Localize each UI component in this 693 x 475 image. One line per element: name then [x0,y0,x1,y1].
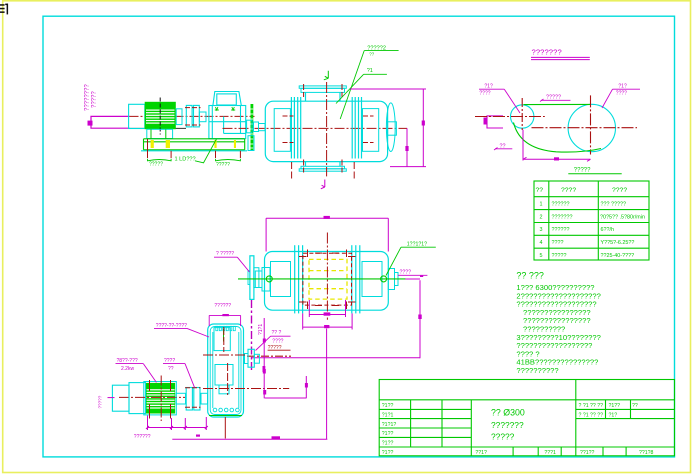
gearbox vent marks (green) [215,107,219,110]
lower mill vertical centerline (dark red) [326,233,328,320]
svg-text:2.2kw: 2.2kw [121,366,134,372]
bearing pedestal (cyan) [247,120,252,133]
svg-text:?????: ????? [216,162,230,168]
left journal shaft blocks [255,271,262,288]
corner label glyph (black) [0,4,8,15]
svg-text:?? ?: ?? ? [272,330,282,336]
svg-text:??: ?? [369,52,375,57]
svg-text:??: ?? [168,366,174,372]
gearbox input pulley (cyan) [245,354,249,364]
pinion gear strip (green hatched) [251,104,254,151]
lower gearbox (cyan) [208,324,244,417]
right head inner [363,109,379,152]
section mark top (green) [324,71,329,80]
svg-text:1: 1 [540,202,543,208]
svg-text:??????: ?????? [134,434,151,440]
svg-text:?1??: ?1?? [382,440,394,446]
svg-text:????: ???? [612,187,627,194]
svg-text:3: 3 [540,227,543,233]
right journal [388,122,397,135]
right head cone [362,262,382,297]
belt bottom run (green arc) [514,123,602,153]
gearbox center extension (dark red vertical) [224,417,226,439]
black shaft base line [130,127,187,129]
mill pulley disc (cyan) [250,256,254,300]
motor M1 (green striped) [145,98,176,135]
small pulley (cyan circle) [511,105,534,128]
svg-text:???????: ??????? [532,48,562,57]
lower motor M2 (green striped) [144,382,177,415]
svg-text:?? ???: ?? ??? [516,271,544,281]
left head cone [271,262,291,297]
dimension ticks (magenta) [405,121,425,152]
outer gauge dimension box top (magenta) [266,218,388,251]
lower coupling (cyan) [176,393,186,404]
top manhole neck [306,92,341,101]
gearbox foot line (green) [209,415,242,417]
svg-text:1??1?1?: 1??1?1? [407,241,427,247]
left extension (magenta) [108,397,115,399]
svg-text:6??/h: 6??/h [601,227,615,233]
svg-text:??: ?? [536,187,544,194]
large pulley centerlines (dark red) [532,127,638,129]
svg-text:?1??: ?1?? [609,403,621,409]
svg-text:????: ???? [400,269,412,275]
svg-text:???1: ???1 [544,450,556,456]
right head flange pair [351,97,353,159]
base frame sole plate (cyan) [141,150,247,152]
grate plates (yellow dashed) [309,259,347,299]
svg-text:?1??: ?1?? [382,403,394,409]
svg-text:????: ???? [272,339,283,345]
svg-text:?1?: ?1? [484,83,493,89]
motor centerlines (dark red) [160,376,162,422]
right flange plates [351,245,353,313]
mill vertical centerline (dark red) [326,82,328,176]
anchor bolts (yellow) [151,140,236,148]
svg-text:?????: ????? [149,162,163,168]
output shaft centerline (dark red) [223,127,408,129]
svg-text:????: ???? [616,91,627,97]
svg-text:?????: ????? [491,432,515,442]
svg-text:?? Ø300: ?? Ø300 [491,408,525,418]
svg-text:?0?5?? .5?80r/min: ?0?5?? .5?80r/min [600,214,645,220]
svg-text:???????: ??????? [491,420,524,430]
svg-text:?1??: ?1?? [382,450,394,456]
svg-text:?????: ????? [98,395,103,408]
center distance dimension (magenta) [522,130,524,161]
flange bolt centerlines (dark red ticks) [283,84,374,180]
mill drum shell [265,101,387,161]
motor symbol box (magenta) [487,116,503,128]
svg-text:??????: ?????? [214,303,231,309]
dim ticks (magenta) [196,339,308,437]
svg-text:??????: ?????? [552,202,570,208]
horizontal dimension line (magenta) [252,357,420,359]
feed box (magenta) [91,116,130,128]
svg-text:????: ???? [552,240,564,246]
svg-text:?????: ????? [92,91,98,108]
top manhole flange plates [301,88,345,92]
coupling C1 (cyan discs) [176,109,182,125]
svg-text:? ?1 ?? ??: ? ?1 ?? ?? [579,412,604,418]
left head inner [274,109,290,152]
svg-text:?1?1: ?1?1 [258,324,264,335]
bottom manhole flange plates [301,166,345,169]
pulley projection centerline (magenta dash-dot vertical) [251,300,253,372]
gearbox shaft centerlines (dark red) [203,354,247,356]
svg-text:??????: ?????? [552,227,570,233]
bolt tick marks (dark red) [299,250,356,310]
svg-text:4: 4 [540,240,543,246]
motor fan cowl (cyan) [112,385,129,411]
svg-text:??1?8: ??1?8 [639,450,654,456]
svg-text:????????: ???????? [85,84,91,111]
svg-text:?1?1?: ?1?1? [382,422,397,428]
svg-text:Y??5?-6.25??: Y??5?-6.25?? [601,240,635,246]
input shaft centerline (dark red) [130,115,255,117]
gearbox (cyan) [209,92,246,139]
mill axis (green centerline with journal circles) [238,278,406,280]
bottom flange dimension (magenta) [303,300,352,330]
coupling bolt circle lines (dark red) [185,107,201,109]
svg-text:?????: ????? [546,95,561,101]
svg-text:?1??: ?1?? [382,431,394,437]
svg-text:????-??-????: ????-??-???? [156,323,187,329]
svg-text:?1?: ?1? [609,412,618,418]
svg-text:??1??: ??1?? [580,450,595,456]
small pulley centerlines (dark red) [475,116,545,118]
left flange plates [294,245,296,313]
svg-text:?????: ????? [574,167,591,173]
bearing box (cyan) [129,104,145,128]
svg-text:??: ?? [632,403,638,409]
left head flange pair [290,97,292,159]
section mark bottom (magenta) [321,180,325,189]
gearbox input shaft extension (dark red) [247,355,291,357]
svg-text:????: ???? [479,91,490,97]
large pulley (cyan circle) [568,104,615,151]
svg-text:????: ???? [561,187,576,194]
svg-text:?????: ????? [552,253,567,259]
svg-text:?1?1: ?1?1 [382,412,394,418]
svg-text:????: ???? [164,358,175,364]
vertical dimension line right (magenta) [419,280,421,358]
overall height dimension (magenta) [350,89,426,167]
base frame (green rails) [144,139,245,150]
svg-text:??1?: ??1? [475,450,487,456]
dimension hook right (green) [216,159,241,161]
svg-text:? ?1 ?? ??: ? ?1 ?? ?? [579,403,604,409]
svg-text:1 LD???: 1 LD??? [175,157,196,163]
bottom dimension chain (magenta) [146,318,327,440]
svg-text:?1?: ?1? [618,83,627,89]
svg-text:2: 2 [540,214,543,220]
belt top run (green) [524,103,591,105]
lower mill drum (cyan) [255,245,398,313]
svg-text:?1: ?1 [367,68,373,74]
left journal [259,124,266,131]
svg-text:??? ?????: ??? ????? [601,202,626,208]
svg-text:5: 5 [540,253,543,259]
svg-text:???????: ??????? [552,214,573,220]
svg-text:??25-40-????: ??25-40-???? [601,253,635,259]
anchor bolt extension lines (dark red) [148,139,241,158]
right journal blocks [388,269,394,290]
svg-text:?8??-???: ?8??-??? [117,358,138,364]
svg-text:? ?????: ? ????? [216,251,234,257]
liner bolts rectangle (magenta dashed) [303,253,352,305]
dimension hook left (green) [148,159,172,161]
svg-text:??????????: ?????????? [516,366,558,375]
motor support (cyan) [147,129,173,138]
bottom manhole neck [306,162,341,167]
